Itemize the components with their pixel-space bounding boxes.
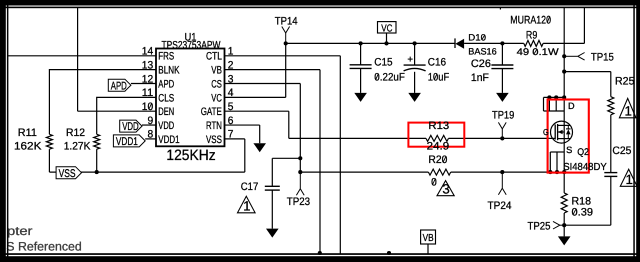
svg-text:6: 6 bbox=[228, 115, 234, 127]
svg-text:MURA120: MURA120 bbox=[510, 14, 551, 26]
svg-text:162K: 162K bbox=[14, 141, 42, 153]
svg-text:C17: C17 bbox=[241, 181, 258, 193]
svg-text:VB: VB bbox=[423, 233, 434, 244]
svg-text:TP25: TP25 bbox=[528, 220, 551, 232]
svg-text:RTN: RTN bbox=[206, 120, 222, 132]
svg-text:10uF: 10uF bbox=[428, 72, 450, 84]
svg-text:3: 3 bbox=[442, 181, 449, 196]
svg-text:1: 1 bbox=[626, 172, 633, 187]
svg-text:FRS: FRS bbox=[158, 51, 174, 63]
svg-text:49 0.1W: 49 0.1W bbox=[517, 47, 560, 58]
svg-text:9: 9 bbox=[148, 115, 154, 127]
svg-text:APD: APD bbox=[111, 80, 127, 92]
svg-text:D: D bbox=[568, 101, 575, 111]
svg-text:C26: C26 bbox=[471, 58, 491, 70]
svg-text:C15: C15 bbox=[374, 56, 392, 68]
svg-text:R11: R11 bbox=[18, 127, 37, 139]
svg-text:TP14: TP14 bbox=[275, 16, 298, 28]
svg-text:11: 11 bbox=[142, 87, 153, 99]
svg-text:1: 1 bbox=[625, 104, 632, 119]
svg-text:TP15: TP15 bbox=[591, 51, 614, 63]
svg-text:VDD: VDD bbox=[158, 120, 174, 132]
svg-text:CS: CS bbox=[211, 78, 222, 90]
svg-text:14: 14 bbox=[142, 46, 153, 58]
svg-text:R25: R25 bbox=[615, 76, 635, 88]
svg-text:4: 4 bbox=[228, 87, 234, 99]
svg-text:R12: R12 bbox=[66, 127, 85, 139]
svg-text:10: 10 bbox=[142, 101, 153, 113]
svg-text:CTL: CTL bbox=[206, 51, 222, 63]
svg-text:CLS: CLS bbox=[158, 92, 174, 104]
svg-text:VC: VC bbox=[381, 23, 392, 34]
svg-text:VC: VC bbox=[211, 92, 222, 104]
svg-text:24.9: 24.9 bbox=[427, 140, 450, 152]
svg-text:5: 5 bbox=[228, 101, 234, 113]
svg-text:C25: C25 bbox=[612, 145, 631, 157]
svg-text:R18: R18 bbox=[572, 195, 592, 207]
svg-text:VB: VB bbox=[211, 65, 222, 77]
svg-text:BLNK: BLNK bbox=[158, 65, 180, 77]
svg-text:8: 8 bbox=[148, 129, 154, 141]
svg-text:TP23: TP23 bbox=[287, 196, 310, 208]
svg-text:TP24: TP24 bbox=[488, 200, 512, 212]
svg-text:G: G bbox=[543, 127, 549, 137]
svg-text:0.22uF: 0.22uF bbox=[374, 72, 405, 84]
svg-text:R13: R13 bbox=[428, 120, 449, 132]
svg-text:R9: R9 bbox=[526, 30, 537, 42]
svg-text:GATE: GATE bbox=[201, 106, 222, 118]
svg-text:125KHz: 125KHz bbox=[166, 147, 215, 164]
svg-text:Q2: Q2 bbox=[577, 147, 589, 158]
svg-text:APD: APD bbox=[158, 78, 174, 90]
svg-text:1: 1 bbox=[243, 199, 250, 214]
svg-text:VDD: VDD bbox=[122, 121, 139, 133]
svg-text:pter: pter bbox=[7, 224, 33, 238]
svg-text:C16: C16 bbox=[428, 56, 446, 68]
svg-text:3: 3 bbox=[228, 73, 234, 85]
svg-text:1: 1 bbox=[228, 46, 234, 58]
svg-text:12: 12 bbox=[142, 73, 153, 85]
svg-text:TPS23753APW: TPS23753APW bbox=[162, 39, 222, 51]
svg-text:S: S bbox=[566, 145, 572, 155]
svg-text:S Referenced: S Referenced bbox=[6, 240, 82, 254]
svg-text:13: 13 bbox=[142, 59, 153, 71]
svg-text:1nF: 1nF bbox=[471, 72, 489, 84]
svg-text:1.27K: 1.27K bbox=[64, 141, 91, 153]
svg-text:VSS: VSS bbox=[206, 134, 222, 146]
svg-text:VDD1: VDD1 bbox=[116, 136, 138, 148]
svg-text:7: 7 bbox=[228, 129, 234, 141]
svg-text:SI4848DY: SI4848DY bbox=[563, 162, 607, 173]
svg-text:TP19: TP19 bbox=[492, 110, 514, 122]
svg-text:0.39: 0.39 bbox=[572, 207, 594, 219]
svg-text:VSS: VSS bbox=[59, 168, 76, 180]
svg-text:BAS16: BAS16 bbox=[468, 46, 496, 56]
svg-text:DEN: DEN bbox=[158, 106, 174, 118]
svg-text:VDD1: VDD1 bbox=[158, 134, 179, 146]
svg-text:2: 2 bbox=[228, 59, 234, 71]
